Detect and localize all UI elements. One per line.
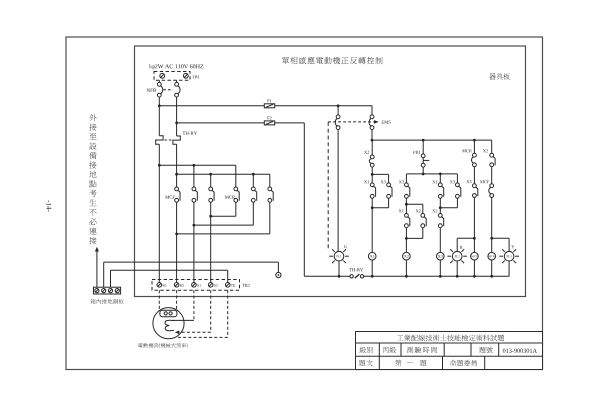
title block col lines row3	[379, 356, 484, 369]
motor main winding	[160, 310, 177, 316]
relay coil X3	[437, 252, 445, 260]
label X1 (pair)	[399, 209, 404, 212]
node X3br bottom	[439, 206, 442, 209]
TH-RY mechanical link	[165, 139, 173, 141]
terminal block TB2 dashed box	[152, 280, 240, 291]
contactor MCR main contact 1	[234, 187, 239, 202]
wire stub c2	[193, 165, 195, 187]
label F2	[267, 116, 271, 119]
node X1 col bar	[371, 173, 374, 176]
TB1 terminal 2	[183, 73, 188, 78]
node PL2 rail	[456, 275, 459, 278]
wire NFB1 down	[158, 97, 160, 136]
text 級別	[360, 347, 373, 353]
wire X3 coil to rail	[439, 260, 441, 276]
thermal relay TH-RY NC contact	[350, 274, 364, 278]
pilot lamp PL2	[447, 249, 467, 263]
title block frame	[356, 332, 543, 370]
text 題次	[359, 360, 372, 366]
wire X1|X3 bottom bar	[372, 198, 388, 208]
node bar-X1X3	[439, 173, 442, 176]
outer page border	[66, 37, 543, 370]
wire MCRb to X3	[473, 167, 475, 184]
label 電動機(附機械式煞車)	[138, 343, 188, 348]
label X3 (X2 branch)	[399, 180, 404, 183]
text 題號	[479, 347, 492, 353]
label MCR b-contact	[462, 149, 472, 152]
wire line2	[177, 173, 270, 175]
wire stub c3	[210, 174, 212, 187]
label X3 (MCF col)	[466, 180, 471, 183]
node line2 tap	[175, 173, 178, 176]
ground plate terminal 2	[102, 289, 106, 293]
title 單相感應電動機正反轉控制	[282, 57, 383, 64]
wire to X3 coil	[439, 228, 441, 253]
contactor MCF main contact 2	[192, 187, 197, 202]
node line1-c2 tap	[193, 164, 196, 167]
node rail-MCR branch	[473, 139, 476, 142]
wire stub PB1	[422, 140, 424, 154]
label X3 (X3 branch)	[450, 180, 455, 183]
wire EMS-left stub	[337, 106, 339, 115]
wire stub X1a	[371, 174, 373, 183]
title block col lines row2	[379, 343, 498, 356]
relay contact X3 NO (X2 br)	[405, 183, 410, 198]
pilot lamp PL1	[329, 249, 349, 263]
label TB1	[192, 75, 199, 78]
title block row line 1	[356, 342, 543, 344]
node EMS-left tap	[337, 104, 340, 107]
node line1 tap	[158, 164, 161, 167]
node X2br pair bar	[405, 203, 408, 206]
equipment board box 器具板	[135, 46, 526, 297]
node X2 rail	[405, 275, 408, 278]
emergency stop EMS contact left	[335, 115, 340, 130]
node X3 rail	[439, 275, 442, 278]
wire stub c4	[235, 165, 237, 187]
text 工業配線技術士技能檢定術科試題	[397, 335, 504, 342]
pilot lamp PL3	[499, 249, 519, 263]
breaker NFB pole 2	[175, 82, 180, 97]
wire stub c6	[269, 174, 271, 187]
pushbutton PB1	[421, 154, 429, 167]
wire pole1 down to TB2	[158, 144, 160, 282]
page number -14-	[47, 200, 52, 211]
wire rail corner to X2	[491, 140, 493, 153]
relay contact X1 NO (pair)	[405, 214, 410, 228]
text 013-900301A	[503, 349, 537, 353]
wire X1|X2 top bar	[406, 204, 422, 213]
node line2-c5 tap	[252, 173, 255, 176]
ground plate terminal 1	[95, 289, 99, 293]
wire stub MCRb	[473, 140, 475, 153]
wire ground to external + arrow	[95, 247, 99, 287]
wire X1|X2 bottom bar	[406, 228, 422, 239]
EMS mechanical link + arrow	[328, 120, 378, 124]
wire PL3 to rail	[508, 261, 510, 276]
wire PB1 spread bar	[406, 174, 457, 183]
relay coil X1	[368, 252, 376, 260]
node PL2 tap	[473, 237, 476, 240]
wire to X2 coil	[405, 238, 407, 252]
wire EMS-right corner	[371, 106, 373, 115]
relay contact X2 NC	[369, 155, 374, 167]
node PL3 tap	[490, 237, 493, 240]
terminal block TB1 dashed box	[154, 72, 190, 81]
relay contact X2 NO (MCR)	[490, 153, 495, 166]
wire X1|X3 top bar	[372, 174, 388, 183]
wire riser S2	[210, 216, 212, 282]
relay contact X1 NO (X3 br)	[438, 183, 443, 198]
label Y	[511, 245, 514, 248]
control bottom rail right	[364, 275, 509, 277]
TB2 terminal R2	[174, 283, 184, 288]
TB2 terminal S2	[208, 283, 217, 288]
text 命題委員	[450, 360, 477, 366]
TB2 terminal R1	[157, 283, 167, 288]
TB1 terminal 1	[160, 73, 165, 78]
node PB1 bar	[422, 173, 425, 176]
wire EMS-left to PL1	[337, 130, 339, 252]
contactor coil MCR	[488, 252, 496, 260]
node c2 merge	[193, 224, 196, 227]
node PL1 rail	[338, 275, 341, 278]
wire L2 feed	[177, 122, 305, 124]
fuse F1	[264, 104, 274, 108]
contactor MCR main contact 3	[268, 187, 273, 202]
ground plate box 箱內接地銅板	[94, 287, 121, 294]
node line2-c3 tap	[209, 173, 212, 176]
wire EMS-right to top rail	[371, 130, 373, 141]
label X1 a-contact	[364, 180, 369, 183]
wire ground plate 3 to TB2 TE	[111, 270, 228, 287]
title block row line 2	[356, 355, 543, 357]
TB2 terminal S1	[192, 283, 201, 288]
wire TB1-1 to NFB	[158, 80, 160, 82]
label TB2	[242, 284, 249, 287]
text 測驗時間	[407, 347, 437, 353]
wire PL2 to rail	[456, 261, 458, 276]
wire line1	[159, 164, 236, 166]
node rail-EMS	[371, 139, 374, 142]
wire PL2 branch	[457, 238, 474, 251]
wire stub c5	[252, 174, 254, 187]
emergency stop EMS contact right	[369, 115, 374, 130]
contactor MCR main contact 2	[251, 187, 256, 202]
contact MCR NC interlock	[472, 153, 477, 166]
label G	[344, 245, 347, 248]
wire PB1 to bar	[422, 167, 424, 174]
wire c2-c5 merge	[194, 202, 253, 225]
wire pole2 down	[176, 144, 178, 187]
breaker NFB pole 1	[157, 82, 162, 97]
ground plate terminal 4	[115, 289, 119, 293]
wire X2 to MCFb	[491, 167, 493, 184]
control bottom rail left	[304, 275, 350, 277]
thermal relay TH-RY heater 2	[173, 136, 180, 144]
wire L1 feed	[159, 105, 372, 107]
relay contact X2 NO (pair)	[421, 214, 426, 228]
node MCR rail	[490, 275, 493, 278]
label X3 a-contact	[381, 180, 386, 183]
node c3 merge	[209, 215, 212, 218]
label 1φ2W AC 110V 60HZ	[149, 64, 203, 69]
motor lead S2 dashed + arrow	[175, 290, 211, 334]
relay contact X3 NO (par2)	[456, 183, 461, 198]
text 第一題	[395, 360, 426, 366]
wire PL1 to rail	[338, 261, 340, 276]
label 器具板	[489, 73, 509, 79]
TB2 terminal TE	[225, 283, 235, 288]
contactor MCF main contact 1	[175, 187, 180, 202]
label X2 (pair)	[416, 209, 421, 212]
wire stub X1X3 right	[440, 174, 457, 183]
label 箱內接地銅板	[91, 299, 124, 304]
label X2 (X3 branch)	[432, 209, 437, 212]
PE terminal on board	[276, 272, 281, 277]
text 丙級	[383, 347, 396, 353]
contactor MCF main contact 3	[209, 187, 214, 202]
contactor coil MCF	[471, 252, 479, 260]
label X2 (MCR col)	[483, 149, 488, 152]
label NFB	[147, 89, 156, 92]
wire ground plate 2 to PE terminal	[104, 262, 279, 287]
wire MCR coil to rail	[491, 260, 493, 276]
relay contact X3 NO (par)	[387, 183, 392, 198]
node MCF rail	[473, 275, 476, 278]
label MCR main	[225, 196, 235, 199]
label TH-RY	[183, 132, 197, 135]
relay contact X2 NO (X3 br)	[438, 214, 443, 228]
label PB1	[413, 151, 420, 154]
relay coil X2	[403, 252, 411, 260]
wire stub X2 series	[439, 208, 441, 214]
contact MCF NC interlock	[489, 184, 494, 198]
node X2br bottom	[405, 237, 408, 240]
relay contact X3 NO (MCF)	[473, 184, 478, 198]
motor lead R2 dashed	[176, 290, 178, 310]
wire to X1 coil	[371, 208, 373, 253]
node rail-PB1	[422, 139, 425, 142]
wire stub X2b	[371, 140, 373, 155]
label F1	[267, 99, 271, 102]
wire PL3 branch	[492, 238, 509, 251]
motor lead TE dashed	[178, 290, 228, 337]
node X1 col bottom	[371, 206, 374, 209]
vertical note 外接至設備接地點考生不必連接	[89, 114, 96, 244]
wire c1-c6 merge	[177, 202, 270, 234]
motor start winding	[165, 320, 174, 331]
wire X1|X3 bottom bar 2	[440, 198, 457, 208]
relay contact X1 NO	[370, 183, 375, 198]
label EMS	[382, 121, 391, 124]
node F1 tap	[158, 104, 161, 107]
thermal relay TH-RY heater 1	[156, 136, 163, 144]
wire riser R2	[176, 234, 178, 283]
wire TB1-2 to NFB	[176, 80, 178, 82]
label X1 (X3 branch)	[432, 180, 437, 183]
wire MCF coil to rail	[473, 260, 475, 276]
label R	[460, 246, 463, 249]
wire L2 drop to bottom rail	[303, 123, 305, 276]
motor M circle	[153, 308, 184, 339]
wire X1 coil to rail	[371, 260, 373, 276]
wire c3-c4 merge	[211, 202, 236, 216]
label X2 b-contact	[364, 151, 369, 154]
node c1 merge	[175, 233, 178, 236]
motor lead R1 dashed	[158, 290, 160, 310]
NFB mechanical link	[163, 89, 172, 91]
label TH-RY contact	[349, 268, 363, 271]
label MCF b-contact	[480, 180, 489, 183]
control top rail	[372, 139, 492, 141]
motor lead S1 dashed	[173, 290, 194, 320]
wire to MCR coil	[491, 197, 493, 252]
EMS link dashed drop to pilot lamp	[327, 122, 329, 249]
wire NFB2 down	[176, 97, 178, 136]
ground plate terminal 3	[108, 289, 112, 293]
node F2 tap	[175, 122, 178, 125]
wire X2 coil to rail	[405, 260, 407, 276]
wire to MCF coil	[473, 197, 475, 252]
node X1 rail	[371, 275, 374, 278]
fuse F2	[264, 121, 274, 125]
label MCF main	[165, 196, 174, 199]
wire X3 to pair bar	[405, 198, 407, 204]
wire riser S1	[193, 225, 195, 282]
wire X2b to bar	[371, 167, 373, 174]
